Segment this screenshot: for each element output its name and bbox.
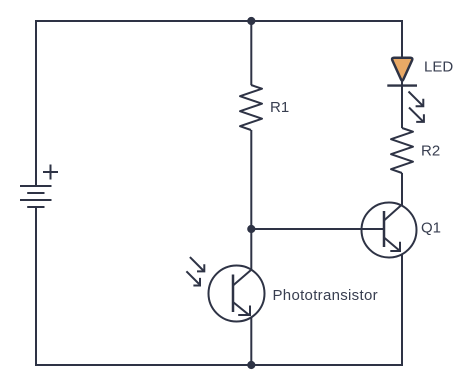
wire right rail to LED anode [401,20,403,59]
svg-text:Q1: Q1 [421,220,441,237]
resistor R2 [391,128,413,173]
LED D1 [387,58,417,86]
wire top rail [35,20,402,22]
wire battery - to bottom-left corner [35,207,37,366]
node base junction [247,225,255,233]
phototransistor light arrows [186,257,204,285]
wire bottom rail [36,364,403,366]
wire Q1 emitter to bottom rail [401,254,403,366]
wire R1 to base junction [250,130,252,229]
svg-text:R2: R2 [421,143,440,160]
node bottom junction [247,361,255,369]
wire R2 to Q1 collector [401,173,403,206]
svg-text:LED: LED [424,59,453,76]
battery plus sign [43,165,58,180]
wire Q1 base [251,228,384,230]
phototransistor [209,266,265,322]
node top junction [247,17,255,25]
battery (2-cell) [20,186,52,207]
svg-text:Phototransistor: Phototransistor [273,287,378,304]
wire left rail (battery + to top-left corner) [35,21,37,186]
wire phototransistor emitter to bottom junction [250,317,252,366]
wire base junction to phototransistor collector [250,229,252,271]
transistor Q1 [362,203,417,258]
svg-text:R1: R1 [270,99,289,116]
resistor R1 [240,85,262,130]
wire LED cathode to R2 [401,80,403,128]
LED emission arrows [409,92,424,122]
wire top junction to R1 [250,21,252,85]
